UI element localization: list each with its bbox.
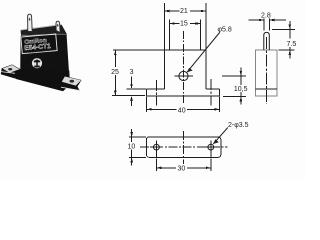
svg-text:25: 25 [111,69,119,76]
dimension 2.8 [249,12,287,31]
bottom view: vertical centerline [182,131,184,164]
product photo: base block under body [16,69,70,91]
product photo: right mounting foot [61,76,82,91]
front view: left terminal outer edge / 21 extension [163,3,165,50]
dimension 15 [170,19,201,28]
front view: flange top left [147,88,165,90]
front view: right terminal inner edge / 15 extension [200,20,202,51]
front view: flange top right [206,88,220,90]
dimension 25 [110,50,165,95]
bottom view: horizontal centerline [140,146,228,148]
side view: centerline [266,37,268,104]
front view: tower top edge [164,49,206,51]
dimension 7.5 [272,21,298,59]
label 2-phi3.5 with leader [213,122,248,144]
dimension 10 [126,129,146,165]
bottom view: left hole [150,141,163,158]
front view: flange bottom edge [147,95,220,97]
side view: flange top line [256,88,278,90]
dimension 21 [164,7,206,16]
svg-text:40: 40 [178,107,186,114]
product photo: round emblem [32,58,42,68]
svg-text:10,5: 10,5 [234,86,248,93]
bottom view: base plate outline [147,137,221,157]
svg-text:φ5.8: φ5.8 [218,26,232,33]
product photo: body front face [20,34,69,79]
front view: body centerline [183,31,185,104]
product photo: left terminal prong [28,14,33,31]
front view: left terminal inner edge / 15 extension [169,20,171,51]
label phi 5.8 with leader [187,26,232,72]
svg-text:7.5: 7.5 [287,41,297,48]
front view: flange left edge [146,89,148,96]
dimension 40 [147,97,220,115]
front view: tower left edge [163,50,165,89]
svg-text:2-φ3.5: 2-φ3.5 [228,122,249,129]
svg-text:21: 21 [180,8,188,15]
front view: tower right edge [205,50,207,89]
product photo: label plate [21,34,57,55]
svg-text:2.8: 2.8 [261,13,271,20]
front view: right hole centerline [210,79,212,106]
front view: left hole centerline [155,80,157,106]
side view: terminal prong [264,32,270,50]
front view: center hole [174,71,193,80]
product photo: body top face [21,25,67,35]
svg-text:10: 10 [128,143,136,150]
dimension 10.5 [222,68,248,105]
svg-text:3: 3 [130,69,134,76]
svg-text:30: 30 [178,166,186,173]
svg-text:15: 15 [180,21,188,28]
dimension 30 [156,159,210,173]
front view: flange right edge [219,89,221,96]
side view: body outline [256,50,278,96]
product photo: right terminal prong [56,21,60,32]
front view: right terminal outer edge / 21 extension [205,3,207,50]
dimension 3 [127,69,147,106]
bottom view: right hole [204,141,217,158]
product photo: left mounting foot [1,65,21,80]
